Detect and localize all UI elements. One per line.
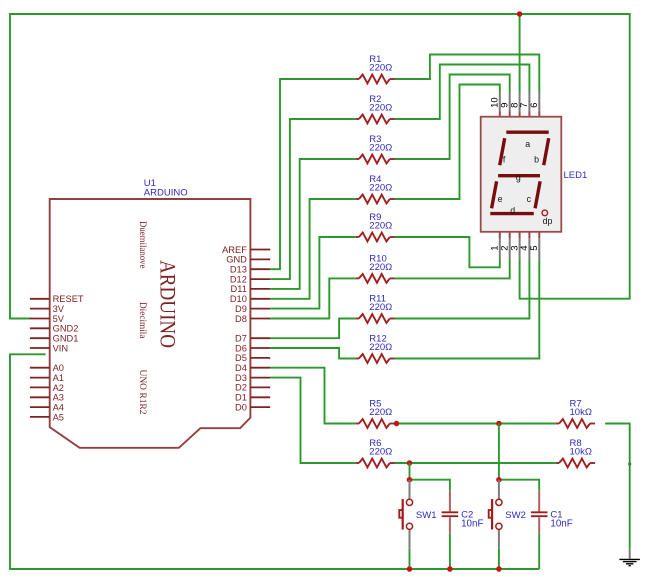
node junction SW2 bottom [496, 566, 502, 572]
LED1 pin 8 lead [519, 92, 521, 112]
wire SW2 top to C1 top [499, 480, 539, 491]
svg-text:220Ω: 220Ω [369, 220, 392, 231]
pin D4 [235, 363, 270, 373]
wire SW1 bottom to GND rail [409, 549, 411, 569]
wire R10 to LED pin 2 [395, 260, 510, 279]
pin A2 [30, 383, 64, 393]
Arduino U1 body [50, 199, 251, 448]
resistor R9 [356, 212, 395, 241]
LED1 segment d [490, 212, 534, 215]
svg-text:10kΩ: 10kΩ [570, 407, 592, 418]
svg-text:D4: D4 [235, 363, 247, 373]
wire R7 to ground [605, 424, 630, 549]
svg-text:D3: D3 [235, 373, 247, 383]
resistor R8 [556, 438, 595, 467]
pushbutton SW2 gray lead top [498, 480, 500, 499]
pin GND1 [30, 334, 79, 344]
pin D7 [235, 334, 270, 344]
node junction C2 bottom [447, 566, 453, 572]
svg-text:6: 6 [529, 103, 540, 108]
pin D6 [235, 343, 270, 353]
svg-text:5V: 5V [53, 314, 65, 324]
pushbutton SW2 symbol [489, 499, 502, 529]
resistor R12 [356, 334, 395, 363]
LED1 segment e [492, 181, 497, 208]
svg-text:D9: D9 [235, 304, 247, 314]
resistor R1 [356, 54, 395, 83]
svg-text:SW1: SW1 [416, 510, 437, 521]
svg-text:a: a [525, 139, 530, 149]
wire SW1 top to C2 top [410, 480, 450, 491]
wire R5 row to R7 [395, 423, 556, 425]
LED1 segment c [535, 181, 540, 208]
svg-text:10nF: 10nF [550, 519, 572, 530]
wire D13 to R1 [270, 79, 356, 269]
svg-text:A0: A0 [53, 363, 64, 373]
svg-text:220Ω: 220Ω [369, 262, 392, 273]
pin 3V [30, 304, 65, 314]
svg-text:5: 5 [529, 245, 540, 250]
wire R6 row to R8 [395, 462, 556, 464]
LED1 segment b [544, 138, 549, 165]
pushbutton SW2 gray lead bottom [498, 530, 500, 549]
svg-text:e: e [498, 194, 503, 204]
svg-text:A5: A5 [53, 412, 64, 422]
pin D2 [235, 383, 270, 393]
wire D8 to R10 [270, 278, 356, 318]
LED1 decimal point dp [542, 210, 548, 216]
svg-text:220Ω: 220Ω [369, 142, 392, 153]
LED1 pin 2 lead [509, 232, 511, 238]
svg-text:A1: A1 [53, 373, 64, 383]
svg-text:c: c [527, 194, 532, 204]
pin AREF [222, 245, 270, 255]
resistor R7 [556, 399, 595, 428]
pin D13 [230, 265, 270, 275]
svg-text:D0: D0 [235, 402, 247, 412]
wire D11 to R3 [270, 159, 356, 289]
svg-text:Duemilanove: Duemilanove [137, 221, 147, 269]
svg-text:D7: D7 [235, 334, 247, 344]
wire D7 to R11 [270, 319, 356, 339]
svg-text:A2: A2 [53, 383, 64, 393]
svg-text:GND1: GND1 [53, 334, 79, 344]
wire R2 to LED pin 7 [395, 65, 530, 120]
resistor R6 [356, 438, 395, 467]
svg-text:3V: 3V [53, 304, 65, 314]
LED1 pin 3 lead [519, 232, 521, 238]
svg-text:220Ω: 220Ω [369, 407, 392, 418]
LED1 pin 9 lead [509, 92, 511, 112]
svg-text:10kΩ: 10kΩ [570, 446, 592, 457]
pin A4 [30, 403, 64, 413]
ground symbol [619, 549, 640, 566]
pin GND [226, 255, 270, 265]
svg-text:LED1: LED1 [564, 170, 588, 181]
node junction SW1 bottom [407, 566, 413, 572]
pin RESET [30, 294, 84, 304]
svg-text:220Ω: 220Ω [369, 446, 392, 457]
wire R4 to LED pin 10 [395, 85, 500, 200]
svg-text:D6: D6 [235, 343, 247, 353]
wire 5V rail: pin3 of LED up right side, across top, down left side to Arduino 5V [10, 14, 630, 319]
wire R9 to LED pin 1 [395, 237, 500, 267]
svg-text:Diecimila: Diecimila [137, 302, 147, 339]
pin D5 [235, 353, 270, 363]
wire R3 to LED pin 9 [395, 75, 510, 160]
svg-text:220Ω: 220Ω [369, 342, 392, 353]
resistor R3 [356, 134, 395, 163]
svg-text:220Ω: 220Ω [369, 102, 392, 113]
LED1 pin 5 lead [538, 232, 540, 238]
node junction SW2 top [496, 477, 502, 483]
LED1 pin 7 lead [528, 92, 530, 112]
resistor R2 [356, 94, 395, 123]
wire C2 bottom to GND rail [449, 534, 451, 569]
node junction 5V rail top [517, 11, 523, 17]
pin A5 [30, 412, 64, 422]
wire C1 bottom to GND rail [538, 534, 540, 569]
svg-text:RESET: RESET [53, 294, 84, 304]
svg-text:D10: D10 [230, 294, 247, 304]
svg-text:GND: GND [226, 255, 247, 265]
svg-text:g: g [516, 172, 521, 182]
wire D3 to R6 [270, 378, 356, 463]
pin D12 [230, 274, 270, 284]
wire R1 to LED pin 6 [395, 55, 539, 93]
pin D10 [230, 294, 270, 304]
svg-text:ARDUINO: ARDUINO [155, 260, 180, 348]
svg-text:D8: D8 [235, 314, 247, 324]
svg-text:D1: D1 [235, 393, 247, 403]
node junction R6 row / SW1 branch [407, 460, 413, 466]
capacitor C2 bottom lead [449, 517, 451, 534]
svg-text:A3: A3 [53, 393, 64, 403]
svg-text:D12: D12 [230, 274, 247, 284]
svg-text:ARDUINO: ARDUINO [144, 188, 188, 199]
pin A0 [30, 363, 64, 373]
pushbutton SW1 gray lead bottom [409, 530, 411, 549]
svg-text:GND2: GND2 [53, 324, 79, 334]
pin 5V [30, 314, 65, 324]
svg-text:AREF: AREF [222, 245, 247, 255]
resistor R4 [356, 174, 395, 203]
svg-text:D2: D2 [235, 383, 247, 393]
pin VIN [30, 343, 68, 353]
wire D4 to R5 [270, 368, 356, 424]
wire R12 to LED pin 5 [395, 260, 539, 359]
resistor R11 [356, 294, 395, 323]
pin D8 [235, 314, 270, 324]
svg-text:dp: dp [543, 216, 553, 226]
LED1 pin 1 lead [499, 232, 501, 238]
svg-text:220Ω: 220Ω [369, 182, 392, 193]
node junction R5 output [394, 421, 400, 427]
pin D1 [235, 393, 270, 403]
wire SW2 bottom to GND rail [498, 549, 500, 569]
wire D9 to R9 [270, 237, 356, 309]
LED1 pin 10 lead [499, 92, 501, 112]
svg-text:10nF: 10nF [461, 519, 483, 530]
svg-text:SW2: SW2 [505, 510, 526, 521]
LED1 segment f [500, 138, 505, 165]
pin A3 [30, 393, 64, 403]
pin A1 [30, 373, 64, 383]
capacitor C1 plates [531, 512, 548, 516]
pushbutton SW1 gray lead top [409, 480, 411, 499]
svg-text:b: b [534, 154, 539, 164]
capacitor C1 bottom lead [538, 517, 540, 534]
svg-text:220Ω: 220Ω [369, 62, 392, 73]
pin GND2 [30, 324, 79, 334]
wire R6 row down to SW1 [409, 463, 411, 480]
pushbutton SW1 symbol [399, 499, 412, 529]
pin D9 [235, 304, 270, 314]
wire D6 to R12 [270, 348, 356, 359]
svg-text:A4: A4 [53, 403, 64, 413]
node junction R5 row / SW2 branch [496, 421, 502, 427]
pin D11 [231, 284, 271, 294]
LED1 pin 4 lead [528, 232, 530, 238]
wire bendpoint on ground wire at R8 row [628, 462, 631, 465]
wire GND rail: left side down and across bottom [10, 354, 539, 569]
LED1 segment g [498, 174, 540, 177]
resistor R10 [356, 253, 395, 282]
pin D3 [235, 373, 270, 383]
svg-text:D13: D13 [230, 265, 247, 275]
capacitor C2 top lead [449, 491, 451, 512]
wire D10 to R4 [270, 199, 356, 299]
7-segment display LED1 body [481, 117, 562, 232]
svg-text:D5: D5 [235, 353, 247, 363]
resistor R5 [356, 399, 395, 428]
node junction SW1 top [407, 477, 413, 483]
capacitor C1 top lead [538, 491, 540, 512]
svg-text:D11: D11 [231, 284, 247, 294]
wire D12 to R2 [270, 119, 356, 279]
LED1 pin 6 lead [538, 92, 540, 112]
svg-text:220Ω: 220Ω [369, 302, 392, 313]
pin D0 [235, 402, 270, 412]
svg-text:VIN: VIN [53, 343, 69, 353]
wire R11 to LED pin 4 [395, 260, 530, 319]
capacitor C2 plates [442, 512, 459, 516]
wire 5V rail branch to LED pin 8 [519, 14, 521, 92]
svg-text:UNO R1R2: UNO R1R2 [137, 370, 147, 415]
LED1 segment a [506, 130, 548, 133]
wire R5 row down to SW2 [498, 424, 500, 480]
svg-text:d: d [510, 206, 515, 216]
